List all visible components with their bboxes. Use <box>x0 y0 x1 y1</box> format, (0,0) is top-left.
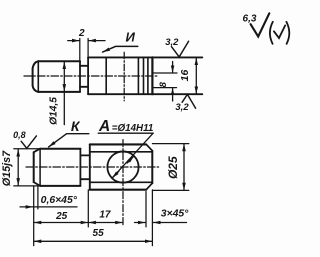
top view right end edge <box>151 57 153 94</box>
svg-text:2: 2 <box>78 28 85 39</box>
svg-text:И: И <box>126 29 136 44</box>
svg-text:К: К <box>71 118 81 134</box>
svg-text:17: 17 <box>99 210 111 221</box>
bottom view block chamfer bottom-right <box>146 183 152 190</box>
bottom view chamfer top-left <box>34 149 40 153</box>
dimension 2 extension line right <box>87 39 89 57</box>
svg-text:6,3: 6,3 <box>243 14 257 25</box>
roughness mark 3,2 bottom <box>182 94 196 108</box>
dimension 8 extension stub upper <box>152 72 177 74</box>
bottom view slot top line <box>90 151 153 153</box>
chamfer 0,6x45 leader tail <box>34 206 77 208</box>
dimension 2 arrow left <box>68 40 80 42</box>
dimension d25 top extension <box>153 143 189 145</box>
bottom view block top edge <box>90 143 146 145</box>
svg-text:Ø15js7: Ø15js7 <box>1 150 13 186</box>
dimension 2 arrow right <box>89 40 106 42</box>
svg-text:3,2: 3,2 <box>175 102 189 113</box>
extension line part right <box>151 190 153 246</box>
dimension 3 arrow left <box>135 222 146 224</box>
extension line chamfer left <box>37 186 39 209</box>
bottom view section1 bottom edge <box>40 185 80 187</box>
dimension 3 arrow right <box>153 222 186 224</box>
dimension d14.5 tail <box>63 92 65 125</box>
dimension d25 line <box>183 144 185 190</box>
extension line block left <box>87 190 89 227</box>
bottom view block chamfer top-right <box>146 144 152 150</box>
bottom view section1 top edge <box>40 148 80 150</box>
extension line part left <box>33 186 35 246</box>
dimension d15js7 line <box>17 149 19 185</box>
dimension 25 line <box>34 222 88 224</box>
svg-text:8: 8 <box>158 81 169 87</box>
svg-text:25: 25 <box>55 211 68 222</box>
bottom view neck top edge <box>80 154 89 156</box>
top view hole silhouette right line <box>137 57 139 94</box>
bottom view neck bottom edge <box>80 178 89 180</box>
bottom view slot bottom line <box>90 181 153 183</box>
dimension d15js7 bottom extension <box>14 185 40 187</box>
top view section2 bottom edge with extension <box>88 93 202 95</box>
bottom view block left edge <box>89 144 91 189</box>
bottom view hole centerline vertical <box>122 140 124 227</box>
svg-text:16: 16 <box>179 70 191 82</box>
bottom view chamfer bottom-left <box>34 182 40 186</box>
top view section2 left edge <box>87 57 89 94</box>
svg-text:Ø25: Ø25 <box>166 156 180 179</box>
surface K leader <box>49 134 89 147</box>
bottom view chamfer edge line <box>39 149 41 186</box>
bottom view block right edge <box>151 151 153 184</box>
top view hole centerline vertical <box>123 52 125 101</box>
dimension d25 bottom extension <box>153 189 189 191</box>
hole circle <box>107 151 138 182</box>
top view groove line 2 <box>147 57 149 94</box>
svg-text:Ø14,5: Ø14,5 <box>49 97 60 125</box>
hole diameter arrow lower <box>112 171 119 178</box>
parenthesis right <box>286 22 289 44</box>
small check in parentheses <box>274 25 285 38</box>
dimension 8 extension stub lower <box>152 87 176 89</box>
parenthesis left <box>270 22 273 44</box>
bottom view block bottom edge <box>90 189 146 191</box>
label A underline <box>98 132 153 134</box>
dimension d15js7 top extension <box>14 148 40 150</box>
top view section1 right edge <box>79 61 81 92</box>
svg-text:3×45°: 3×45° <box>161 208 189 219</box>
dimension 8 upper arrow <box>172 62 174 73</box>
top view cap edge line <box>37 61 39 92</box>
top view neck bottom edge <box>80 86 88 88</box>
top view section1 top edge <box>38 60 80 62</box>
dimension 16 line <box>195 58 197 94</box>
top view groove line 1 <box>143 57 145 94</box>
chamfer 0,6x45 leader arrow <box>20 206 33 208</box>
top view section2 top edge with extension <box>88 56 202 58</box>
roughness mark 0,8 <box>21 136 36 148</box>
view arrow leader I <box>103 46 138 52</box>
svg-text:А: А <box>98 118 110 135</box>
top view centerline horizontal <box>24 75 158 77</box>
svg-text:0,8: 0,8 <box>13 130 26 140</box>
svg-text:=Ø14Н11: =Ø14Н11 <box>112 123 153 134</box>
roughness mark 3,2 top <box>172 41 189 57</box>
top view section1 bottom edge <box>38 91 80 93</box>
bottom view section1 right edge <box>79 149 81 186</box>
svg-text:3,2: 3,2 <box>165 37 179 48</box>
dimension 17 line <box>89 222 123 224</box>
top view left cap outline <box>33 61 39 92</box>
dimension 55 line <box>34 240 152 242</box>
top view hole silhouette left line <box>105 57 107 94</box>
extension line chamfer right <box>145 192 147 227</box>
svg-text:0,6×45°: 0,6×45° <box>41 195 78 206</box>
bottom view centerline horizontal <box>26 166 159 168</box>
hole diameter arrow upper <box>127 156 134 163</box>
hole diameter leader line <box>112 133 153 178</box>
bottom view left edge <box>33 152 35 182</box>
dimension 2 extension line left <box>79 39 81 61</box>
dimension 8 lower arrow <box>172 88 174 101</box>
top view neck top edge <box>80 65 88 67</box>
general roughness check 6,3 <box>251 13 270 36</box>
dimension d14.5 line <box>63 62 65 92</box>
svg-text:55: 55 <box>93 228 105 239</box>
